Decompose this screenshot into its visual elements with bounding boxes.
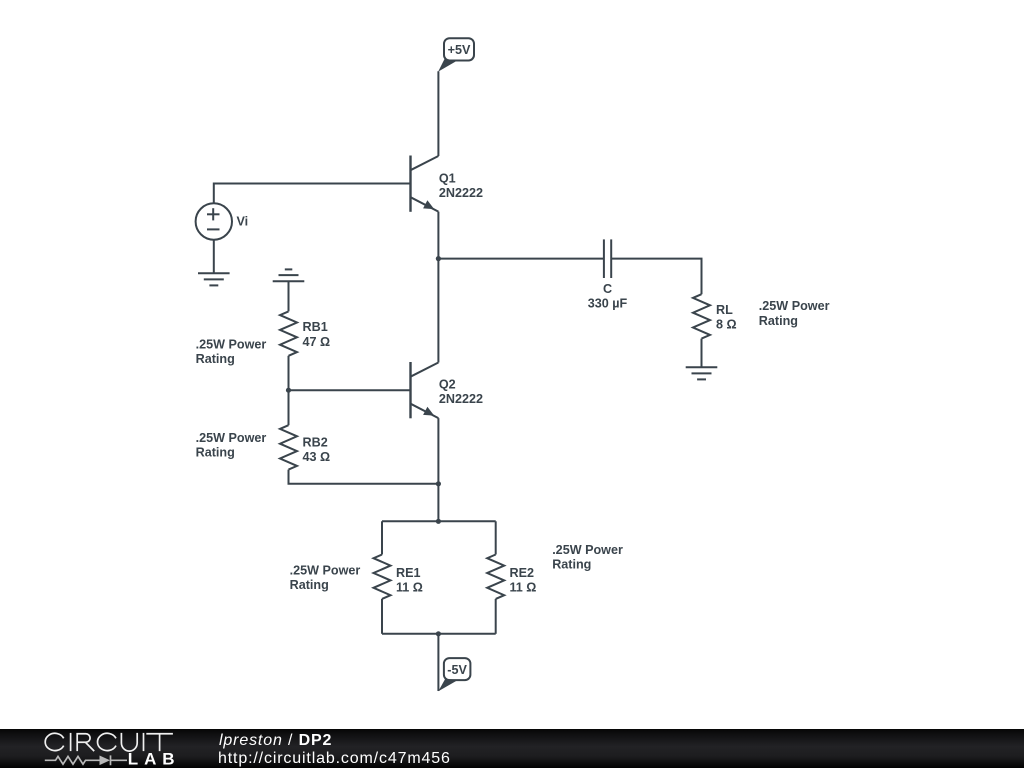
letter I [70,733,72,751]
label C 330µF [588,282,628,311]
svg-text:2N2222: 2N2222 [439,392,483,406]
logo diode triangle [100,756,111,766]
wire Q2 emitter to node C [437,418,439,484]
svg-text:.25W Power: .25W Power [759,299,830,313]
svg-text:2N2222: 2N2222 [439,186,483,200]
wire node C to node D [437,484,439,522]
transistor Q1 [411,156,439,212]
footer url [218,750,451,768]
label RE1 11Ω [396,566,423,595]
svg-text:.25W Power: .25W Power [196,431,267,445]
wire top rail to RE2 [495,521,497,554]
label RB2 43Ω [303,436,331,465]
ground below Vi [198,273,230,285]
svg-text:Q2: Q2 [439,378,456,392]
svg-text:11 Ω: 11 Ω [396,580,423,594]
svg-text:RB1: RB1 [303,320,328,334]
wire +5V flag to Q1 collector [437,71,439,156]
resistor RB1 [280,311,297,355]
svg-text:11 Ω: 11 Ω [510,580,537,594]
resistor RE2 [487,555,504,599]
svg-text:8 Ω: 8 Ω [716,318,737,332]
wire node E to -5V flag [437,634,439,691]
node E [436,631,441,636]
svg-text:C: C [603,282,612,296]
svg-text:Rating: Rating [290,578,329,592]
power flag -5V [438,658,470,691]
svg-text:RB2: RB2 [303,436,328,450]
wire RE top rail [382,520,496,522]
ground above RB1 (inverted) [273,269,305,281]
letter U [121,733,137,751]
node D [436,519,441,524]
wire RB2 to node C [289,470,439,484]
node A [436,256,441,261]
letter T [146,734,173,751]
label Q1 2N2222 [439,172,483,201]
wire top rail to RE1 [381,521,383,554]
wire node B to RB2 [288,390,290,425]
svg-text:Rating: Rating [552,558,591,572]
label .25W Power Rating (RB2) [196,431,267,460]
resistor RB2 [280,425,297,469]
label .25W Power Rating (RE2) [552,543,623,572]
svg-text:.25W Power: .25W Power [290,563,361,577]
wire RE2 to bottom rail [495,599,497,634]
svg-text:Rating: Rating [196,352,235,366]
wire Q1 emitter to node A [437,212,439,259]
svg-text:-5V: -5V [447,663,467,677]
wire node A to Q2 collector [437,259,439,363]
letter C2 [98,733,116,750]
wire node A to capacitor [438,258,604,260]
wire Vi to ground [213,240,215,274]
svg-text:Rating: Rating [759,314,798,328]
node B [286,388,291,393]
letter C [45,733,63,750]
svg-text:Q1: Q1 [439,172,456,186]
transistor Q2 [411,362,439,418]
wire node B to Q2 base [289,389,411,391]
footer bar [0,729,1024,768]
CircuitLab logo [0,729,200,768]
footer title lpreston / DP2 [219,732,332,750]
wire RB1 to node B [288,356,290,390]
wire RE1 to bottom rail [381,599,383,634]
resistor RE1 [374,555,391,599]
label RL 8Ω [716,303,737,332]
wire RE bottom rail [382,633,496,635]
svg-text:.25W Power: .25W Power [196,337,267,351]
svg-text:43 Ω: 43 Ω [303,450,331,464]
svg-text:330 µF: 330 µF [588,297,628,311]
capacitor C [604,239,611,278]
label .25W Power Rating (RE1) [290,563,361,592]
svg-text:+5V: +5V [448,43,471,57]
ground below RL [686,367,718,379]
label RB1 47Ω [303,320,331,349]
svg-text:.25W Power: .25W Power [552,543,623,557]
resistor RL [693,294,710,338]
svg-text:RL: RL [716,303,733,317]
label .25W Power Rating (RL) [759,299,830,328]
svg-text:Vi: Vi [237,215,249,229]
svg-text:Rating: Rating [196,446,235,460]
label Q2 2N2222 [439,378,483,407]
wire RL to ground [701,339,703,368]
wire ground to RB1 [288,281,290,311]
wire capacitor to RL [611,259,701,295]
letter I2 [143,733,145,751]
node C [436,481,441,486]
power flag +5V [438,38,474,71]
letter R [77,734,94,751]
svg-text:LAB: LAB [128,750,181,768]
svg-text:RE1: RE1 [396,566,421,580]
logo resistor-diode line [45,755,127,765]
voltage source Vi [196,203,232,239]
label .25W Power Rating (RB1) [196,337,267,366]
svg-text:47 Ω: 47 Ω [303,335,331,349]
svg-text:RE2: RE2 [510,566,535,580]
label RE2 11Ω [510,566,537,595]
wire Vi to Q1 base [214,184,411,204]
